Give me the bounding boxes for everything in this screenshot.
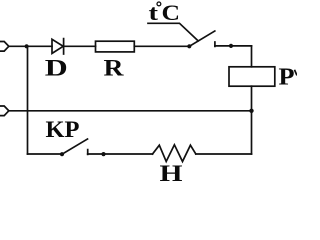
wire right vertical (top) to relay — [251, 46, 253, 67]
svg-text:R: R — [104, 56, 124, 81]
svg-text:C: C — [162, 0, 181, 25]
wire bottom left segment — [28, 153, 63, 155]
wire: KP contact to heater — [88, 153, 153, 155]
wire left vertical — [27, 46, 29, 154]
wire: switch to right corner — [215, 45, 252, 47]
node dot after switch contact — [229, 44, 233, 48]
resistor R — [96, 41, 135, 52]
wire middle: terminal to right vertical — [9, 110, 252, 112]
relay coil P — [229, 67, 275, 86]
switch KP fixed contact tick — [87, 150, 89, 155]
terminal X2 (middle left input) — [0, 106, 9, 116]
terminal X1 (top left input) — [0, 42, 9, 52]
svg-text:D: D — [45, 56, 68, 81]
heater H (zigzag resistor) — [153, 145, 196, 162]
thermal switch fixed contact tick — [214, 42, 216, 46]
wire: diode to resistor — [64, 45, 96, 47]
node junction dot (middle right) — [249, 109, 253, 113]
svg-text:KP: KP — [46, 117, 80, 142]
wire right vertical (bottom) from relay — [251, 86, 253, 154]
svg-text:P: P — [279, 64, 295, 90]
diode D — [52, 39, 63, 53]
switch KP lever — [62, 139, 88, 154]
label leader line for t°C — [148, 23, 198, 41]
wire: resistor to thermal switch — [134, 45, 189, 47]
partial mark after P (cropped glyph) — [295, 71, 297, 75]
wire bottom right segment — [196, 153, 252, 155]
switch KP pivot contact dot — [60, 152, 64, 156]
svg-text:H: H — [160, 161, 183, 183]
node junction dot (top-left) — [25, 44, 29, 48]
thermal switch pivot contact dot — [187, 44, 191, 48]
node dot after KP contact — [101, 152, 105, 156]
thermal switch lever — [189, 31, 215, 46]
wire top: terminal to diode — [9, 45, 52, 47]
